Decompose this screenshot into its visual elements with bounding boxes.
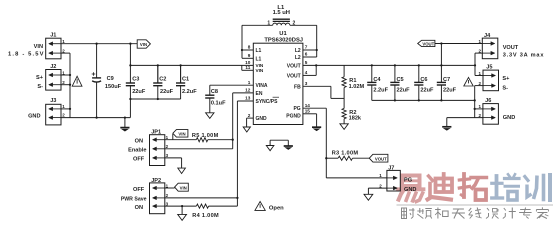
svg-text:Enable: Enable (128, 148, 146, 154)
svg-text:3: 3 (305, 81, 308, 86)
svg-text:2.2uF: 2.2uF (182, 89, 197, 95)
svg-text:L2: L2 (295, 48, 301, 54)
svg-text:S-: S- (502, 85, 508, 91)
svg-text:22uF: 22uF (397, 88, 411, 94)
svg-text:U1: U1 (279, 31, 287, 37)
svg-text:FB: FB (294, 84, 301, 90)
svg-text:GND: GND (503, 115, 515, 121)
svg-text:VOUT: VOUT (422, 42, 434, 47)
svg-text:J1: J1 (50, 33, 56, 39)
svg-text:11: 11 (245, 65, 250, 70)
svg-text:8: 8 (248, 45, 251, 50)
svg-text:22uF: 22uF (160, 89, 174, 95)
svg-text:OFF: OFF (133, 157, 145, 163)
svg-text:VIN: VIN (34, 44, 43, 50)
svg-text:C6: C6 (420, 77, 427, 83)
svg-text:0.1uF: 0.1uF (211, 101, 226, 107)
svg-text:150uF: 150uF (105, 84, 122, 90)
svg-text:1: 1 (248, 80, 251, 85)
svg-text:22uF: 22uF (132, 89, 146, 95)
svg-text:C2: C2 (159, 77, 166, 83)
svg-text:13: 13 (245, 96, 251, 101)
svg-text:C7: C7 (443, 77, 450, 83)
svg-text:VIN: VIN (180, 185, 187, 190)
svg-text:2: 2 (293, 21, 296, 27)
svg-text:9: 9 (248, 53, 251, 58)
svg-text:C8: C8 (211, 89, 218, 95)
svg-text:ON: ON (135, 139, 143, 145)
svg-text:6: 6 (305, 52, 308, 57)
svg-text:R3 1.00M: R3 1.00M (332, 150, 359, 156)
svg-text:VINA: VINA (256, 83, 268, 89)
svg-text:1.02M: 1.02M (349, 84, 365, 90)
svg-text:4: 4 (305, 70, 308, 75)
svg-text:SYNC/PS: SYNC/PS (256, 99, 279, 105)
svg-text:Open: Open (269, 205, 284, 211)
svg-text:GND: GND (28, 113, 40, 119)
svg-text:VIN: VIN (140, 42, 147, 47)
svg-text:2: 2 (248, 113, 251, 118)
svg-text:15: 15 (305, 109, 311, 114)
svg-text:C1: C1 (182, 77, 189, 83)
svg-text:C4: C4 (373, 77, 381, 83)
svg-text:VOUT: VOUT (375, 156, 387, 161)
svg-text:PG: PG (404, 178, 412, 184)
svg-text:VOUT: VOUT (287, 63, 301, 69)
svg-text:GND: GND (404, 187, 416, 193)
svg-text:S+: S+ (502, 76, 510, 82)
svg-text:L1: L1 (256, 48, 262, 54)
svg-text:GND: GND (256, 116, 268, 122)
svg-text:1: 1 (267, 21, 270, 27)
svg-text:VOUT: VOUT (287, 73, 301, 79)
svg-text:C3: C3 (132, 77, 139, 83)
svg-text:12: 12 (245, 88, 251, 93)
svg-text:182k: 182k (349, 115, 362, 121)
svg-text:VIN: VIN (178, 132, 185, 137)
svg-text:J6: J6 (485, 98, 491, 104)
svg-text:R5 1.00M: R5 1.00M (192, 133, 219, 139)
svg-text:TPS63020DSJ: TPS63020DSJ (264, 37, 303, 43)
svg-text:R4 1.00M: R4 1.00M (192, 213, 219, 219)
svg-text:S+: S+ (36, 75, 44, 81)
svg-text:7: 7 (305, 45, 308, 50)
svg-text:1.8 - 5.5V: 1.8 - 5.5V (8, 52, 45, 58)
svg-text:OFF: OFF (133, 187, 145, 193)
svg-text:VIN: VIN (256, 68, 264, 73)
svg-text:PWR Save: PWR Save (121, 196, 147, 202)
svg-text:L1: L1 (256, 56, 262, 62)
svg-text:J3: J3 (50, 98, 56, 104)
svg-text:EN: EN (256, 91, 263, 97)
svg-text:3.3V 3A max: 3.3V 3A max (503, 52, 545, 58)
svg-text:PGND: PGND (286, 114, 301, 120)
svg-text:22uF: 22uF (443, 88, 457, 94)
svg-text:L2: L2 (295, 55, 301, 61)
svg-text:VOUT: VOUT (503, 45, 519, 51)
svg-text:22uF: 22uF (420, 88, 434, 94)
svg-text:PG: PG (293, 106, 300, 112)
svg-text:1.5 uH: 1.5 uH (273, 10, 290, 16)
svg-text:2.2uF: 2.2uF (373, 88, 388, 94)
svg-text:5: 5 (305, 60, 308, 65)
svg-text:14: 14 (305, 103, 311, 108)
svg-text:S-: S- (37, 84, 43, 90)
svg-text:C9: C9 (107, 76, 114, 82)
svg-text:ON: ON (135, 205, 143, 211)
svg-text:C5: C5 (397, 77, 404, 83)
